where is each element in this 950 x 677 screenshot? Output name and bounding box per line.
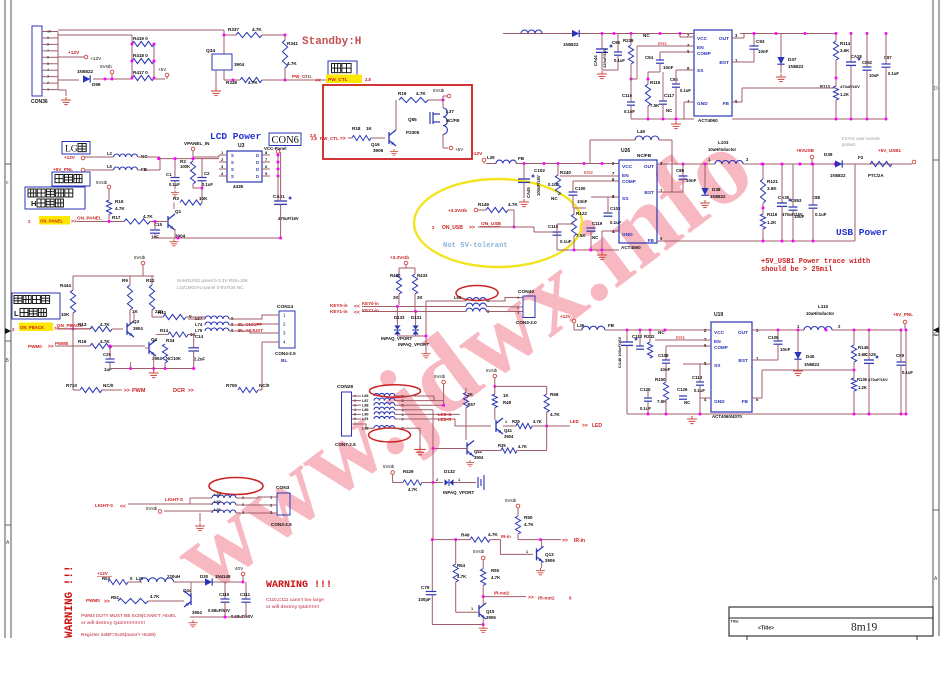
svg-text:4435: 4435	[233, 184, 244, 189]
svg-text:LG: LG	[65, 145, 78, 155]
svg-text:R51: R51	[111, 595, 120, 600]
svg-text:Standby:H: Standby:H	[302, 36, 361, 48]
svg-text:R341: R341	[287, 41, 298, 46]
svg-text:+3.3Vstb: +3.3Vstb	[448, 208, 467, 213]
svg-text:Not 5V-tolerant: Not 5V-tolerant	[443, 242, 508, 250]
svg-text:C: C	[934, 332, 938, 338]
svg-text:or will destroy Q44!!!!!!!!!!!: or will destroy Q44!!!!!!!!!!!!!!!	[81, 620, 146, 625]
svg-text:LED: LED	[570, 419, 579, 424]
svg-text:L110: L110	[818, 304, 829, 309]
svg-text:L5: L5	[107, 164, 113, 169]
svg-text:BST: BST	[644, 190, 654, 196]
svg-text:NC/10K: NC/10K	[166, 356, 181, 361]
svg-text:NC: NC	[551, 196, 558, 201]
svg-text:GND: GND	[697, 101, 708, 107]
svg-text:3904: 3904	[192, 610, 202, 615]
svg-text:COMP: COMP	[697, 51, 711, 56]
svg-text:CA31: CA31	[273, 194, 285, 199]
svg-text:ON_USB: ON_USB	[481, 221, 502, 227]
svg-text:4.7K: 4.7K	[248, 80, 258, 85]
svg-text:6: 6	[47, 55, 49, 59]
svg-text:C93: C93	[756, 39, 765, 44]
svg-text:NC: NC	[643, 33, 650, 38]
svg-text:R150: R150	[655, 377, 666, 382]
svg-text:1.2K: 1.2K	[840, 92, 849, 97]
svg-text:2: 2	[47, 81, 49, 85]
svg-text:5: 5	[47, 62, 49, 66]
svg-text:+3.3Vstb: +3.3Vstb	[390, 255, 409, 260]
svg-text:CA29: CA29	[865, 352, 876, 357]
svg-text:D39: D39	[824, 152, 833, 157]
svg-text:R418 0: R418 0	[133, 53, 148, 58]
svg-text:ACT4060: ACT4060	[621, 245, 641, 250]
svg-text:L94: L94	[362, 394, 369, 398]
svg-text:C1: C1	[166, 172, 172, 177]
svg-text:EN2: EN2	[584, 170, 593, 175]
svg-text:0.1uF: 0.1uF	[888, 71, 899, 76]
svg-text:C79: C79	[421, 585, 430, 590]
svg-text:FB: FB	[723, 101, 730, 107]
svg-text:R240: R240	[560, 170, 571, 175]
svg-text:+12V: +12V	[471, 151, 483, 157]
svg-text:S: S	[231, 174, 234, 179]
svg-text:C110,C111 cann't too large: C110,C111 cann't too large	[266, 597, 324, 602]
svg-text:R57: R57	[468, 402, 476, 407]
svg-text:+12V: +12V	[64, 155, 76, 160]
svg-text:470uF/16V: 470uF/16V	[782, 212, 803, 217]
svg-text:R114: R114	[840, 41, 851, 46]
svg-text:100K: 100K	[180, 164, 190, 169]
svg-text:3906: 3906	[373, 148, 384, 153]
svg-text:4.7K: 4.7K	[524, 522, 534, 527]
svg-text:L103: L103	[718, 140, 729, 145]
svg-text:R48: R48	[503, 400, 512, 405]
svg-text:FB: FB	[742, 399, 749, 405]
svg-text:4.7K: 4.7K	[408, 487, 418, 492]
svg-text:R420: R420	[390, 273, 401, 278]
svg-text:4.7K: 4.7K	[252, 27, 262, 32]
svg-text:D: D	[256, 174, 259, 179]
svg-text:D37: D37	[788, 57, 797, 62]
svg-text:<Title>: <Title>	[758, 626, 774, 632]
svg-text:EN1: EN1	[658, 41, 667, 46]
svg-text:<<: <<	[315, 78, 321, 84]
svg-text:10nF: 10nF	[758, 49, 769, 54]
svg-text:2,8: 2,8	[365, 77, 371, 82]
svg-text:0.1uF: 0.1uF	[680, 88, 691, 93]
svg-text:GND: GND	[622, 232, 633, 238]
svg-text:R16: R16	[78, 339, 87, 344]
svg-text:VCC: VCC	[697, 36, 708, 42]
svg-text:>>: >>	[528, 595, 534, 601]
svg-text:4.7K: 4.7K	[287, 61, 297, 66]
svg-text:C94: C94	[645, 55, 654, 60]
svg-text:100uF/16V: 100uF/16V	[536, 175, 541, 196]
svg-text:R239: R239	[623, 38, 634, 43]
svg-text:1K: 1K	[503, 393, 509, 398]
svg-text:C112: C112	[632, 334, 643, 339]
svg-text:H: H	[31, 199, 36, 208]
svg-text:3.6K: 3.6K	[840, 48, 850, 53]
svg-text:5Vstb: 5Vstb	[433, 88, 445, 93]
svg-text:KEY0-in: KEY0-in	[362, 301, 379, 306]
svg-text:<<: <<	[120, 504, 126, 510]
svg-text:L2: L2	[107, 151, 113, 156]
svg-text:ON_PANEL: ON_PANEL	[77, 216, 102, 221]
svg-text:CA30: CA30	[778, 195, 790, 200]
svg-text:Q55: Q55	[408, 117, 417, 122]
svg-text:5Vstb: 5Vstb	[96, 180, 108, 185]
svg-text:CON6: CON6	[272, 135, 299, 146]
svg-text:<<: <<	[354, 310, 360, 316]
svg-text:R710: R710	[66, 383, 77, 388]
svg-text:470uF/16V: 470uF/16V	[868, 377, 888, 382]
svg-text:5: 5	[354, 413, 356, 417]
svg-text:CTL: CTL	[304, 74, 313, 79]
svg-text:LIGHT-S: LIGHT-S	[165, 497, 183, 502]
svg-text:+5VUSB: +5VUSB	[796, 148, 815, 153]
svg-text:4.7K: 4.7K	[100, 322, 110, 327]
svg-text:1: 1	[47, 88, 49, 92]
svg-text:1K: 1K	[366, 126, 373, 131]
svg-text:NC/FB: NC/FB	[637, 153, 652, 158]
svg-text:5Vstb: 5Vstb	[383, 464, 395, 469]
svg-text:L48: L48	[637, 129, 645, 134]
svg-text:OUT: OUT	[738, 330, 748, 336]
svg-text:OUT: OUT	[719, 36, 729, 42]
svg-text:C89: C89	[896, 353, 905, 358]
svg-text:3904: 3904	[234, 62, 245, 67]
svg-text:L90: L90	[362, 413, 369, 417]
svg-text:4: 4	[47, 68, 49, 72]
svg-text:R3: R3	[173, 196, 179, 201]
svg-text:1N5822: 1N5822	[710, 194, 726, 199]
svg-text:L87: L87	[362, 399, 369, 403]
svg-text:KEY1-in: KEY1-in	[362, 308, 379, 313]
svg-text:R444: R444	[60, 283, 71, 288]
svg-text:3: 3	[47, 75, 49, 79]
svg-text:D30: D30	[200, 574, 209, 579]
svg-text:EN1: EN1	[676, 335, 685, 340]
svg-text:WARNING !!!: WARNING !!!	[266, 580, 332, 591]
svg-text:6: 6	[354, 417, 356, 421]
svg-text:R115: R115	[650, 80, 661, 85]
svg-text:4.7K: 4.7K	[488, 532, 498, 537]
svg-text:R15: R15	[115, 199, 124, 204]
svg-text:COMP: COMP	[622, 179, 636, 184]
svg-text:+5V_USB1: +5V_USB1	[878, 148, 902, 153]
svg-text:Q41: Q41	[504, 428, 513, 433]
svg-text:C14: C14	[195, 334, 204, 339]
svg-text:3.6K: 3.6K	[767, 186, 777, 191]
svg-text:FB: FB	[608, 323, 615, 328]
svg-text:4.7K: 4.7K	[508, 202, 518, 207]
svg-text:R17: R17	[112, 215, 121, 220]
svg-text:>>: >>	[562, 538, 568, 544]
svg-text:10: 10	[47, 30, 51, 34]
svg-text:>>: >>	[340, 136, 346, 142]
svg-text:R136: R136	[857, 377, 868, 382]
svg-text:+5V: +5V	[455, 147, 464, 152]
svg-text:INPAQ_VPORT: INPAQ_VPORT	[443, 490, 474, 495]
svg-text:PWM0: PWM0	[28, 344, 42, 349]
svg-text:4.7K: 4.7K	[457, 574, 467, 579]
svg-text:3904: 3904	[474, 455, 484, 460]
svg-text:C86: C86	[676, 168, 685, 173]
svg-text:C102: C102	[534, 168, 545, 173]
svg-text:R709: R709	[226, 383, 237, 388]
svg-text:D40: D40	[806, 354, 815, 359]
svg-text:1N5822: 1N5822	[804, 362, 820, 367]
svg-text:VCC: VCC	[622, 164, 633, 170]
svg-text:7: 7	[47, 49, 49, 53]
svg-text:D38: D38	[712, 187, 721, 192]
svg-text:CON4-2.5: CON4-2.5	[275, 351, 296, 356]
svg-text:D133: D133	[394, 315, 405, 320]
svg-text:1: 1	[471, 607, 473, 611]
svg-text:Register 34NF=0x25(nann't >0x8: Register 34NF=0x25(nann't >0x80)	[81, 632, 156, 637]
svg-text:Q13: Q13	[545, 552, 554, 557]
svg-text:R121: R121	[767, 179, 778, 184]
svg-text:3906: 3906	[486, 615, 496, 620]
svg-text:C110: C110	[219, 592, 230, 597]
svg-text:PWM0: PWM0	[86, 598, 100, 603]
svg-text:F2:For over current: F2:For over current	[842, 136, 880, 141]
svg-text:1.2K: 1.2K	[858, 385, 867, 390]
svg-text:2K: 2K	[417, 295, 423, 300]
svg-text:L74: L74	[195, 322, 203, 327]
svg-text:R35: R35	[498, 443, 506, 448]
svg-text:0.1uF: 0.1uF	[640, 406, 651, 411]
svg-text:ON_PANEL: ON_PANEL	[40, 219, 63, 224]
svg-text:PWM0: PWM0	[55, 341, 69, 346]
svg-text:R55: R55	[491, 568, 500, 573]
svg-text:S: S	[231, 160, 234, 165]
svg-text:COMP: COMP	[714, 345, 728, 350]
svg-text:SS: SS	[622, 196, 629, 202]
svg-text:IR-in: IR-in	[574, 538, 585, 544]
svg-text:IR-out2: IR-out2	[494, 591, 510, 596]
svg-text:S: S	[231, 167, 234, 172]
svg-text:GND: GND	[714, 399, 725, 405]
svg-text:4.7K: 4.7K	[416, 91, 426, 96]
svg-text:L37: L37	[446, 109, 454, 114]
svg-text:1N5822: 1N5822	[788, 64, 804, 69]
svg-text:R9: R9	[122, 278, 128, 283]
svg-text:LED-R: LED-R	[438, 417, 452, 422]
svg-text:120uF/16V: 120uF/16V	[602, 48, 607, 68]
svg-text:CON3: CON3	[276, 485, 290, 491]
svg-text:D: D	[256, 167, 259, 172]
svg-text:>>: >>	[188, 388, 194, 394]
svg-text:PW_CTL: PW_CTL	[320, 136, 339, 141]
svg-text:D: D	[934, 86, 938, 92]
svg-text:VPANEL_IN: VPANEL_IN	[184, 141, 210, 146]
svg-text:L91: L91	[362, 417, 369, 421]
svg-text:C113: C113	[692, 375, 703, 380]
svg-text:>>: >>	[469, 225, 475, 231]
svg-text:C117: C117	[664, 93, 675, 98]
svg-text:4.7K: 4.7K	[115, 206, 125, 211]
svg-text:R145: R145	[858, 345, 869, 350]
svg-text:L53: L53	[214, 492, 222, 497]
svg-text:10nF: 10nF	[686, 178, 697, 183]
svg-text:P2305: P2305	[406, 130, 420, 135]
svg-text:Q44: Q44	[183, 588, 192, 593]
svg-text:R337: R337	[228, 27, 239, 32]
svg-text:9: 9	[47, 36, 49, 40]
svg-text:R429: R429	[403, 469, 414, 474]
svg-text:Q4: Q4	[151, 337, 158, 342]
svg-text:DCR: DCR	[173, 388, 185, 394]
svg-text:should be > 25mil: should be > 25mil	[761, 266, 832, 274]
svg-text:INPAQ_VPORT: INPAQ_VPORT	[398, 342, 429, 347]
svg-text:SS: SS	[714, 363, 721, 369]
svg-text:C100: C100	[575, 186, 586, 191]
svg-text:10uH/Inductor: 10uH/Inductor	[708, 147, 737, 152]
svg-text:40V: 40V	[235, 566, 244, 571]
svg-text:CON3-2.5: CON3-2.5	[271, 522, 292, 527]
svg-text:CA28: CA28	[851, 54, 862, 59]
svg-text:ACT4060: ACT4060	[698, 118, 718, 123]
svg-text:5Vstb: 5Vstb	[486, 368, 498, 373]
svg-text:2K: 2K	[393, 295, 399, 300]
svg-text:3904: 3904	[133, 326, 143, 331]
svg-text:PTC/2A: PTC/2A	[868, 173, 884, 178]
svg-text:Q16: Q16	[371, 142, 380, 147]
svg-text:SAMSUNG panel 0-3.3V R34=10K: SAMSUNG panel 0-3.3V R34=10K	[177, 278, 249, 283]
svg-text:BST: BST	[738, 358, 748, 364]
svg-text:2K: 2K	[468, 392, 473, 397]
svg-text:CON7-2.5: CON7-2.5	[335, 442, 356, 447]
svg-text:2,8: 2,8	[310, 133, 316, 138]
svg-text:R68: R68	[550, 392, 559, 397]
svg-text:5Vstb: 5Vstb	[434, 374, 446, 379]
svg-text:10uH/Inductor: 10uH/Inductor	[806, 311, 835, 316]
svg-text:10nF: 10nF	[660, 367, 671, 372]
svg-text:Q42: Q42	[474, 449, 483, 454]
svg-text:1N5822: 1N5822	[830, 173, 846, 178]
svg-text:L: L	[14, 309, 19, 318]
svg-text:4.7K: 4.7K	[491, 575, 501, 580]
svg-text:NC: NC	[592, 235, 599, 240]
svg-text:>>: >>	[48, 344, 54, 350]
svg-text:C106: C106	[768, 335, 779, 340]
svg-text:NC: NC	[666, 108, 673, 113]
svg-text:FB: FB	[648, 238, 655, 244]
svg-text:C108: C108	[658, 353, 669, 358]
svg-text:+5V: +5V	[158, 67, 167, 72]
svg-text:R34: R34	[166, 338, 175, 343]
svg-text:R13: R13	[78, 322, 87, 327]
svg-text:D: D	[256, 160, 259, 165]
svg-text:Q15: Q15	[486, 609, 495, 614]
svg-text:1K: 1K	[132, 309, 139, 314]
svg-text:or will destroy Q44!!!!!!!!: or will destroy Q44!!!!!!!!	[266, 604, 320, 609]
svg-text:+5V_USB1 Power trace width: +5V_USB1 Power trace width	[761, 258, 870, 266]
svg-text:5Vstb: 5Vstb	[505, 498, 517, 503]
svg-text:S: S	[231, 153, 234, 158]
svg-text:R116: R116	[767, 212, 778, 217]
svg-text:NC/0: NC/0	[103, 383, 114, 388]
svg-text:3: 3	[354, 403, 356, 407]
svg-text:0.1uF: 0.1uF	[902, 370, 913, 375]
svg-text:C87: C87	[884, 55, 892, 60]
svg-text:CA45: CA45	[526, 187, 531, 198]
svg-text:R12: R12	[146, 278, 155, 283]
svg-text:>>: >>	[124, 388, 130, 394]
svg-text:INPAQ_VPORT: INPAQ_VPORT	[381, 336, 412, 341]
svg-text:1N4148: 1N4148	[215, 574, 231, 579]
svg-text:C111: C111	[240, 592, 251, 597]
svg-text:CA46 100uF/16V: CA46 100uF/16V	[617, 337, 622, 368]
svg-text:PWM: PWM	[132, 388, 146, 394]
svg-text:5Vstb: 5Vstb	[473, 549, 485, 554]
svg-text:KEY1-in: KEY1-in	[330, 309, 348, 314]
svg-text:10K: 10K	[61, 312, 70, 317]
svg-text:WARNING !!!: WARNING !!!	[64, 565, 76, 638]
svg-text:470uF/16V: 470uF/16V	[278, 216, 299, 221]
svg-text:L39: L39	[487, 155, 495, 160]
svg-text:L75: L75	[195, 328, 203, 333]
svg-text:1: 1	[526, 550, 528, 554]
svg-text:PW_CTL: PW_CTL	[328, 77, 348, 83]
svg-text:10nF: 10nF	[780, 347, 791, 352]
svg-text:SS: SS	[697, 68, 704, 74]
svg-text:2.2uF: 2.2uF	[194, 357, 205, 362]
svg-text:+5V_PNL: +5V_PNL	[893, 312, 913, 317]
svg-text:C125: C125	[640, 387, 651, 392]
svg-text:CON36: CON36	[31, 99, 48, 105]
svg-text:1: 1	[505, 420, 507, 424]
svg-text:R14: R14	[160, 328, 169, 333]
svg-text:CON28: CON28	[337, 384, 353, 390]
svg-text:NC: NC	[684, 400, 691, 405]
svg-text:10nF: 10nF	[663, 65, 674, 70]
svg-text:Q34: Q34	[206, 48, 215, 54]
svg-text:D131: D131	[411, 315, 422, 320]
svg-text:CA44: CA44	[593, 55, 598, 66]
svg-text:1N5822: 1N5822	[77, 69, 94, 74]
svg-text:6: 6	[569, 596, 572, 601]
svg-text:7.5K: 7.5K	[650, 103, 660, 108]
svg-text:L88: L88	[362, 403, 369, 407]
svg-text:5Vstb: 5Vstb	[146, 506, 158, 511]
svg-text:R433: R433	[417, 273, 428, 278]
svg-text:D132: D132	[444, 469, 455, 474]
svg-text:LG/CMO/AU panel 0-5V,R34 NC: LG/CMO/AU panel 0-5V,R34 NC	[177, 285, 244, 290]
svg-text:L57: L57	[195, 316, 203, 321]
svg-text:4.7K: 4.7K	[143, 214, 153, 219]
svg-text:LED: LED	[592, 423, 602, 429]
svg-text:R54: R54	[457, 563, 466, 568]
svg-text:R419 0: R419 0	[133, 36, 148, 41]
svg-text:0.1uF: 0.1uF	[560, 239, 572, 244]
svg-text:0.1uF: 0.1uF	[610, 220, 622, 225]
svg-text:CON40: CON40	[518, 289, 534, 295]
svg-text:0.1uF: 0.1uF	[624, 109, 635, 114]
svg-text:R50: R50	[524, 515, 533, 520]
svg-text:0.1uF: 0.1uF	[815, 212, 827, 217]
svg-text:3906: 3906	[545, 558, 555, 563]
svg-text:+12V: +12V	[560, 314, 572, 319]
svg-text:R122: R122	[576, 211, 587, 216]
svg-text:0.68uF/50V: 0.68uF/50V	[208, 608, 230, 613]
svg-text:10nF: 10nF	[577, 199, 588, 204]
svg-text:protect: protect	[842, 142, 856, 147]
svg-text:4: 4	[354, 408, 356, 412]
svg-text:8m19: 8m19	[851, 622, 877, 634]
